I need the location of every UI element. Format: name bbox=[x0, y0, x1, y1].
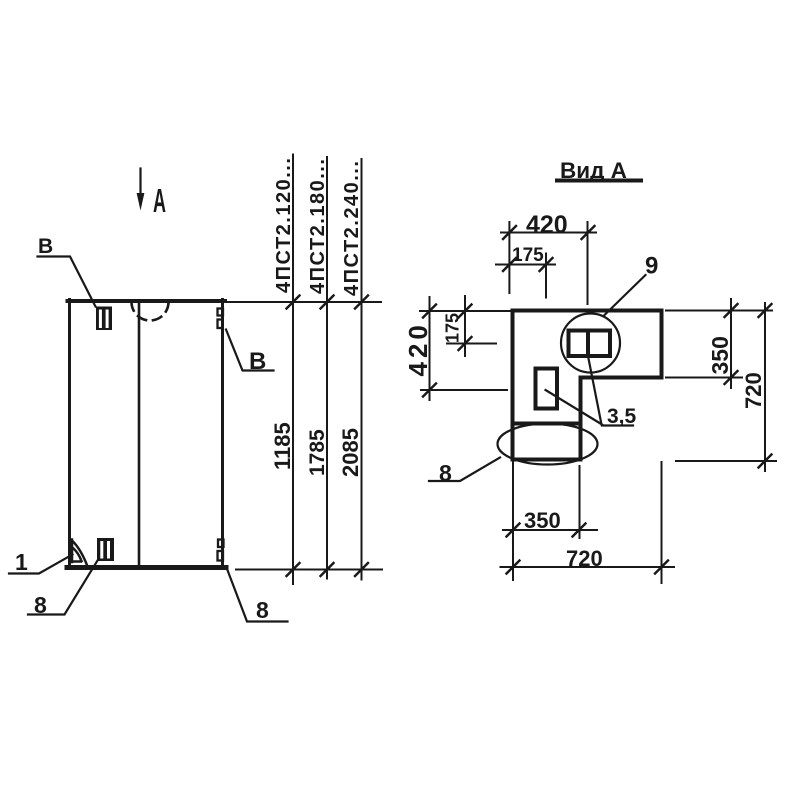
svg-text:1185: 1185 bbox=[270, 422, 295, 470]
corner washer detail 1 (bottom-left) bbox=[71, 540, 88, 567]
svg-text:8: 8 bbox=[34, 592, 47, 618]
svg-text:В: В bbox=[249, 348, 266, 375]
svg-text:350: 350 bbox=[524, 508, 561, 533]
svg-text:350: 350 bbox=[707, 336, 733, 374]
dashed arc (hidden opening) bbox=[132, 302, 169, 321]
height dimension line 1785 bbox=[326, 157, 328, 579]
top horizontal dimension 175 bbox=[496, 264, 555, 266]
edge embed top-right (detail B) bbox=[218, 309, 224, 316]
right vertical dimension 720 bbox=[764, 303, 766, 471]
svg-text:3,5: 3,5 bbox=[607, 405, 637, 428]
section arrow A bbox=[139, 169, 141, 205]
section outline (view A) bbox=[513, 311, 662, 460]
embed plate top-left (detail B) bbox=[96, 307, 112, 331]
height dimension line 1185 bbox=[292, 155, 294, 585]
leader and label B (top-left) bbox=[38, 257, 96, 307]
leader and label B (right) bbox=[226, 330, 274, 371]
svg-text:4ПСТ2.240...: 4ПСТ2.240... bbox=[341, 160, 363, 296]
leader and label 8 (section) bbox=[429, 458, 500, 482]
svg-text:720: 720 bbox=[741, 372, 766, 409]
svg-text:8: 8 bbox=[439, 460, 452, 486]
edge embed bottom-right (detail 8) bbox=[218, 540, 224, 548]
svg-text:4ПСТ2.180...: 4ПСТ2.180... bbox=[307, 158, 329, 294]
left vertical dimension 420 bbox=[429, 297, 431, 400]
top horizontal dimension 420 bbox=[501, 232, 596, 234]
right vertical dimension 350 bbox=[730, 299, 732, 388]
dimension ticks bottom row bbox=[287, 563, 369, 576]
detail ellipse 8 bbox=[498, 424, 598, 465]
svg-text:175: 175 bbox=[512, 245, 544, 266]
left vertical dimension 175 bbox=[464, 296, 466, 356]
leader and label 1 bbox=[9, 555, 73, 574]
leader and label 9 bbox=[604, 275, 646, 316]
svg-text:4ПСТ2.120...: 4ПСТ2.120... bbox=[273, 157, 295, 293]
detail circle 9 bbox=[561, 314, 620, 373]
embed plate bottom (detail 8) bbox=[97, 538, 114, 561]
svg-text:1785: 1785 bbox=[306, 429, 329, 476]
svg-text:8: 8 bbox=[256, 597, 269, 623]
bottom extension line of stacked height dimensions bbox=[236, 569, 382, 571]
bottom extension lines of section bbox=[513, 462, 662, 583]
svg-text:1: 1 bbox=[15, 549, 28, 575]
svg-text:720: 720 bbox=[566, 546, 603, 571]
svg-text:2085: 2085 bbox=[338, 428, 363, 477]
bottom horizontal dimension 720 bbox=[501, 566, 675, 568]
svg-text:А: А bbox=[153, 182, 166, 219]
svg-text:9: 9 bbox=[645, 253, 658, 280]
top extension line of stacked height dimensions bbox=[228, 301, 381, 303]
bottom horizontal dimension 350 bbox=[503, 529, 597, 531]
leaders and label 3,5 bbox=[546, 356, 634, 426]
svg-text:420: 420 bbox=[526, 211, 568, 239]
embed box in section (detail 9) bbox=[569, 331, 611, 357]
right side extension lines bbox=[666, 311, 776, 462]
bearing joint line inside stem bbox=[513, 422, 581, 426]
dimension ticks top row bbox=[287, 296, 369, 309]
panel elevation outline (left view) bbox=[68, 299, 226, 303]
svg-text:420: 420 bbox=[403, 321, 433, 376]
panel joint line (middle vertical) bbox=[138, 302, 141, 565]
height dimension line 2085 bbox=[361, 159, 363, 580]
svg-text:175: 175 bbox=[443, 313, 463, 343]
leader and label 8 (right of panel) bbox=[227, 568, 288, 622]
slot rectangle in stem bbox=[536, 369, 558, 409]
svg-text:В: В bbox=[38, 235, 53, 258]
leader and label 8 (left) bbox=[28, 561, 98, 615]
